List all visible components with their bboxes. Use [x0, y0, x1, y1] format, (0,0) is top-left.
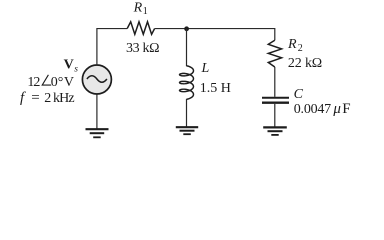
angle symbol: [42, 75, 51, 85]
ground (right): [263, 127, 287, 134]
svg-text:f: f: [20, 90, 26, 106]
wire capacitor to ground: [274, 104, 276, 127]
svg-text:s: s: [74, 64, 78, 74]
sine wave inside source: [87, 76, 107, 83]
wire source to ground: [96, 95, 98, 130]
svg-text:=: =: [31, 90, 39, 106]
wire inductor to ground: [186, 99, 188, 127]
wire top-right segment into right branch corner: [155, 29, 275, 41]
svg-text:μ: μ: [332, 101, 341, 117]
resistor R1 zigzag: [127, 22, 154, 35]
resistor R2 zigzag: [268, 40, 281, 67]
ground (middle): [176, 127, 198, 134]
wire middle branch upper: [186, 29, 188, 66]
svg-text:R: R: [133, 0, 143, 15]
svg-text:2 kHz: 2 kHz: [44, 91, 74, 106]
svg-text:22 kΩ: 22 kΩ: [288, 56, 322, 71]
capacitor C plates: [262, 97, 289, 99]
svg-text:1.5 H: 1.5 H: [200, 81, 231, 96]
svg-text:0.0047: 0.0047: [294, 102, 331, 117]
svg-text:12: 12: [27, 75, 40, 90]
svg-text:V: V: [64, 57, 74, 72]
wire top-left segment and left riser: [97, 29, 127, 65]
svg-text:F: F: [342, 101, 350, 117]
svg-text:0°: 0°: [51, 75, 64, 90]
node junction dot: [184, 26, 189, 31]
inductor L coil: [180, 66, 194, 100]
wire R2 to capacitor: [274, 67, 276, 97]
svg-text:L: L: [201, 61, 210, 76]
voltage source Vs circle: [82, 65, 111, 94]
svg-text:V: V: [64, 75, 74, 90]
svg-text:33 kΩ: 33 kΩ: [126, 41, 160, 56]
ground (left): [86, 129, 109, 137]
svg-text:C: C: [294, 87, 304, 102]
svg-text:2: 2: [298, 43, 303, 54]
svg-text:R: R: [287, 37, 297, 52]
svg-text:1: 1: [143, 6, 148, 17]
